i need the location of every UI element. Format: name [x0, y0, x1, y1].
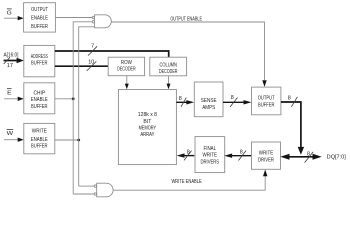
node E-bar label [7, 89, 12, 97]
wire write driver to final write drivers [224, 154, 251, 158]
column decoder [150, 57, 187, 76]
slash on 10 bus [87, 61, 97, 71]
output enable buffer [24, 3, 56, 32]
arrow into write driver bottom [263, 170, 267, 177]
gate U2 write enable AND [94, 183, 113, 197]
node G-bar label [7, 9, 12, 17]
svg-text:BUFFER: BUFFER [31, 60, 48, 66]
wire A[16:0] input stub (bus) [4, 58, 24, 63]
wire array to sense amps [176, 100, 194, 104]
svg-text:E: E [7, 91, 11, 97]
arrow into output buffer top [262, 80, 266, 87]
slash write-mid bus [239, 151, 247, 161]
chip enable buffer [24, 83, 55, 114]
slash sense bus [230, 98, 238, 108]
svg-text:BIT: BIT [143, 119, 151, 125]
svg-text:BUFFER: BUFFER [31, 104, 48, 110]
svg-text:8: 8 [179, 96, 182, 102]
wire G buffer output to gate U1 [55, 17, 92, 19]
wire DQ bidirectional bus [280, 154, 321, 160]
wire row decoder to array [125, 76, 129, 90]
write driver [252, 142, 281, 169]
svg-text:DECODER: DECODER [159, 69, 178, 75]
svg-text:AMPS: AMPS [202, 105, 215, 111]
wire E to gate U2 [73, 193, 94, 195]
write enable buffer [24, 123, 55, 153]
wire 7-bit column address bus [55, 51, 169, 57]
svg-text:DECODER: DECODER [117, 66, 136, 72]
svg-text:OUTPUT: OUTPUT [258, 96, 275, 102]
svg-text:WRITE: WRITE [203, 153, 218, 159]
svg-text:W: W [7, 131, 14, 137]
slash on 7 bus [88, 46, 97, 55]
svg-text:WRITE ENABLE: WRITE ENABLE [171, 179, 202, 185]
wire final write drivers to array [177, 153, 195, 157]
svg-text:8: 8 [231, 95, 234, 101]
svg-text:ARRAY: ARRAY [140, 132, 154, 138]
wire E vertical net [73, 22, 92, 194]
wire W-bar input stub [4, 138, 24, 142]
wire write enable net [113, 175, 265, 190]
svg-text:ENABLE: ENABLE [31, 137, 48, 143]
output buffer [252, 87, 281, 115]
svg-text:DRIVER: DRIVER [258, 157, 274, 163]
svg-text:BUFFER: BUFFER [258, 103, 275, 109]
svg-text:BUFFER: BUFFER [31, 24, 48, 30]
svg-text:ENABLE: ENABLE [31, 16, 48, 22]
svg-text:DRIVERS: DRIVERS [201, 159, 220, 165]
wire W vertical net [79, 27, 95, 186]
svg-text:WRITE: WRITE [259, 151, 274, 157]
node junction W [77, 139, 80, 142]
svg-text:G: G [7, 10, 12, 16]
svg-text:BUFFER: BUFFER [31, 144, 48, 150]
svg-text:A[16:0]: A[16:0] [4, 52, 19, 58]
wire W to gate U2 [79, 185, 95, 187]
svg-text:128k x 8: 128k x 8 [138, 112, 158, 118]
svg-text:8: 8 [240, 150, 243, 156]
svg-text:COLUMN: COLUMN [160, 62, 177, 68]
svg-text:17: 17 [7, 63, 13, 69]
slash write-in bus [184, 151, 192, 161]
svg-text:WRITE: WRITE [32, 129, 47, 135]
wire G-bar input stub [4, 16, 24, 20]
wire output buffer to DQ (thick) [281, 102, 301, 148]
svg-text:8: 8 [288, 96, 291, 102]
svg-text:SENSE: SENSE [201, 98, 217, 104]
wire output enable net [111, 22, 264, 80]
svg-text:ROW: ROW [121, 60, 132, 66]
svg-text:7: 7 [91, 43, 94, 49]
svg-text:DQ[7:0]: DQ[7:0] [327, 154, 347, 160]
arrow onto DQ line [298, 147, 304, 155]
svg-text:ADDRESS: ADDRESS [31, 54, 48, 60]
node W-bar label [7, 129, 14, 137]
svg-text:OUTPUT: OUTPUT [31, 7, 48, 13]
wire column decoder to array [167, 76, 171, 90]
sense amps [194, 82, 223, 117]
wire write enable buffer output [55, 139, 79, 141]
svg-text:FINAL: FINAL [204, 146, 217, 152]
svg-text:ENABLE: ENABLE [31, 97, 48, 103]
memory array [118, 90, 176, 165]
address buffer [24, 45, 55, 76]
svg-text:MEMORY: MEMORY [139, 126, 157, 132]
slash output bus [291, 97, 297, 107]
svg-text:OUTPUT ENABLE: OUTPUT ENABLE [170, 16, 202, 22]
wire 10-bit row address bus [55, 65, 108, 67]
wire chip enable buffer output [55, 98, 73, 100]
node junction E [72, 97, 75, 100]
svg-text:CHIP: CHIP [34, 90, 46, 96]
row decoder [108, 57, 144, 75]
slash on A bus [4, 57, 10, 64]
final write drivers [195, 137, 225, 173]
gate U1 output enable AND [92, 15, 111, 28]
slash read bus [181, 98, 186, 107]
wire sense amps to output buffer [223, 100, 251, 104]
slash DQ bus [305, 152, 314, 163]
wire E-bar input stub [4, 97, 24, 101]
